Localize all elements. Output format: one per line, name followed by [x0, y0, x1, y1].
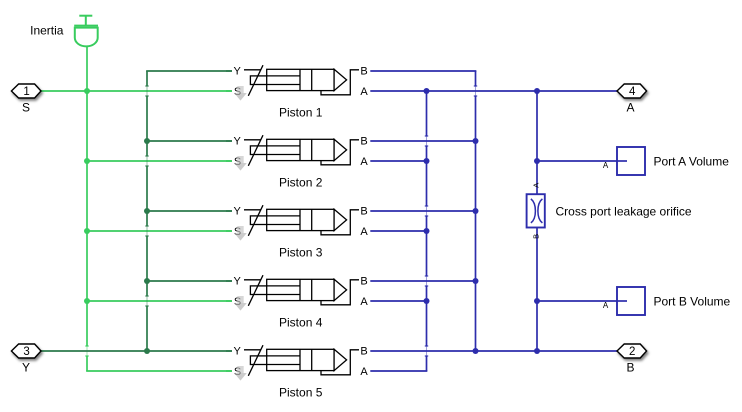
wire: B net Piston 5 B to Port 2: [370, 350, 617, 352]
piston P5 block: [234, 345, 369, 380]
Port A Volume block: [603, 147, 645, 175]
svg-text:B: B: [626, 360, 634, 374]
wire: Y bus vertical (dark green): [146, 71, 148, 86]
svg-text:A: A: [603, 301, 609, 310]
svg-text:A: A: [603, 161, 609, 170]
svg-text:Piston 5: Piston 5: [279, 385, 323, 399]
wire: Y bus corner to Piston 1 Y: [146, 70, 232, 72]
junction dots on S bus: [84, 88, 90, 304]
junction dots on B bus: [473, 138, 479, 354]
piston P4 block: [234, 275, 369, 310]
wire: Y branch to Piston 2 Y: [147, 140, 232, 142]
Cross port leakage orifice block: [527, 183, 545, 239]
wire: Piston 1 B to B bus corner: [370, 70, 476, 72]
svg-text:1: 1: [23, 86, 29, 98]
svg-text:3: 3: [23, 346, 29, 358]
wire: S branch to Piston 3 S: [87, 230, 232, 232]
svg-text:Y: Y: [234, 345, 242, 357]
wire: Piston 5 A to bus corner: [370, 370, 427, 372]
svg-text:A: A: [360, 156, 368, 168]
green Y/S stubs at pistons: [226, 71, 232, 371]
wire: S branch to Piston 2 S: [87, 160, 232, 162]
svg-text:2: 2: [629, 346, 635, 358]
svg-text:B: B: [360, 275, 367, 287]
wire: S bus vertical from Inertia down (bright green): [86, 46, 88, 346]
wire: Y branch to Piston 4 Y: [147, 280, 232, 282]
wire: Y net from Port 3 to Piston 5 Y (dark green): [41, 350, 232, 352]
svg-text:B: B: [532, 234, 541, 239]
svg-text:A: A: [360, 366, 368, 378]
svg-text:Y: Y: [22, 360, 30, 374]
svg-text:Piston 3: Piston 3: [279, 245, 323, 259]
wire: S bus corner to Piston 5 S: [86, 370, 232, 372]
wire: Piston 3 A stub: [370, 230, 426, 232]
wire: Piston 4 A stub: [370, 300, 426, 302]
wire: A net Piston 1 A to Port 4 (blue): [370, 90, 617, 92]
svg-text:Piston 1: Piston 1: [279, 105, 323, 119]
svg-text:A: A: [532, 183, 541, 188]
junction dots on A bus: [424, 88, 430, 304]
port 2 (B) hexagon: [617, 344, 647, 358]
svg-text:A: A: [360, 296, 368, 308]
junction dots on Y bus: [144, 138, 150, 354]
wire: Piston 2 A stub: [370, 160, 426, 162]
wire: S net from Port 1 to Piston 1 S (bright green): [41, 90, 232, 92]
port 1 (S) hexagon: [11, 84, 41, 98]
svg-text:Piston 2: Piston 2: [279, 175, 323, 189]
svg-text:Y: Y: [234, 135, 242, 147]
svg-text:B: B: [360, 135, 367, 147]
piston P3 block: [234, 205, 369, 240]
svg-text:B: B: [360, 205, 367, 217]
svg-text:B: B: [360, 345, 367, 357]
svg-text:Y: Y: [234, 205, 242, 217]
port 3 (Y) hexagon: [11, 344, 41, 358]
wire: blue A bus vertical: [426, 91, 428, 136]
svg-text:A: A: [360, 86, 368, 98]
svg-text:Inertia: Inertia: [30, 24, 64, 38]
svg-text:S: S: [22, 100, 30, 114]
piston P2 block: [234, 135, 369, 170]
port 4 (A) hexagon: [617, 84, 647, 98]
wire: branch to Port B Volume: [537, 300, 627, 302]
wire: blue B bus vertical: [475, 71, 477, 86]
svg-text:B: B: [360, 65, 367, 77]
wire: branch to Port A Volume: [537, 160, 627, 162]
wire: Y branch to Piston 3 Y: [147, 210, 232, 212]
svg-text:A: A: [626, 100, 634, 114]
wire: right vertical from orifice port B: [536, 228, 538, 352]
svg-text:Port B Volume: Port B Volume: [654, 294, 731, 308]
svg-text:Port A Volume: Port A Volume: [654, 154, 730, 168]
svg-text:Y: Y: [234, 275, 242, 287]
wire: Piston 4 B stub: [370, 280, 475, 282]
Port B Volume block: [603, 287, 645, 315]
svg-text:Cross port leakage orifice: Cross port leakage orifice: [556, 205, 692, 219]
svg-text:Y: Y: [234, 65, 242, 77]
piston P1 block: [234, 65, 369, 100]
junction dots on right vertical: [534, 88, 540, 354]
wire: right vertical to orifice port A: [536, 91, 538, 194]
wire: Piston 3 B stub: [370, 210, 475, 212]
svg-text:A: A: [360, 226, 368, 238]
wire: S branch to Piston 4 S: [87, 300, 232, 302]
svg-text:Piston 4: Piston 4: [279, 315, 323, 329]
svg-text:4: 4: [629, 86, 636, 98]
Inertia block symbol: [74, 16, 98, 47]
wire: Piston 2 B stub: [370, 140, 475, 142]
